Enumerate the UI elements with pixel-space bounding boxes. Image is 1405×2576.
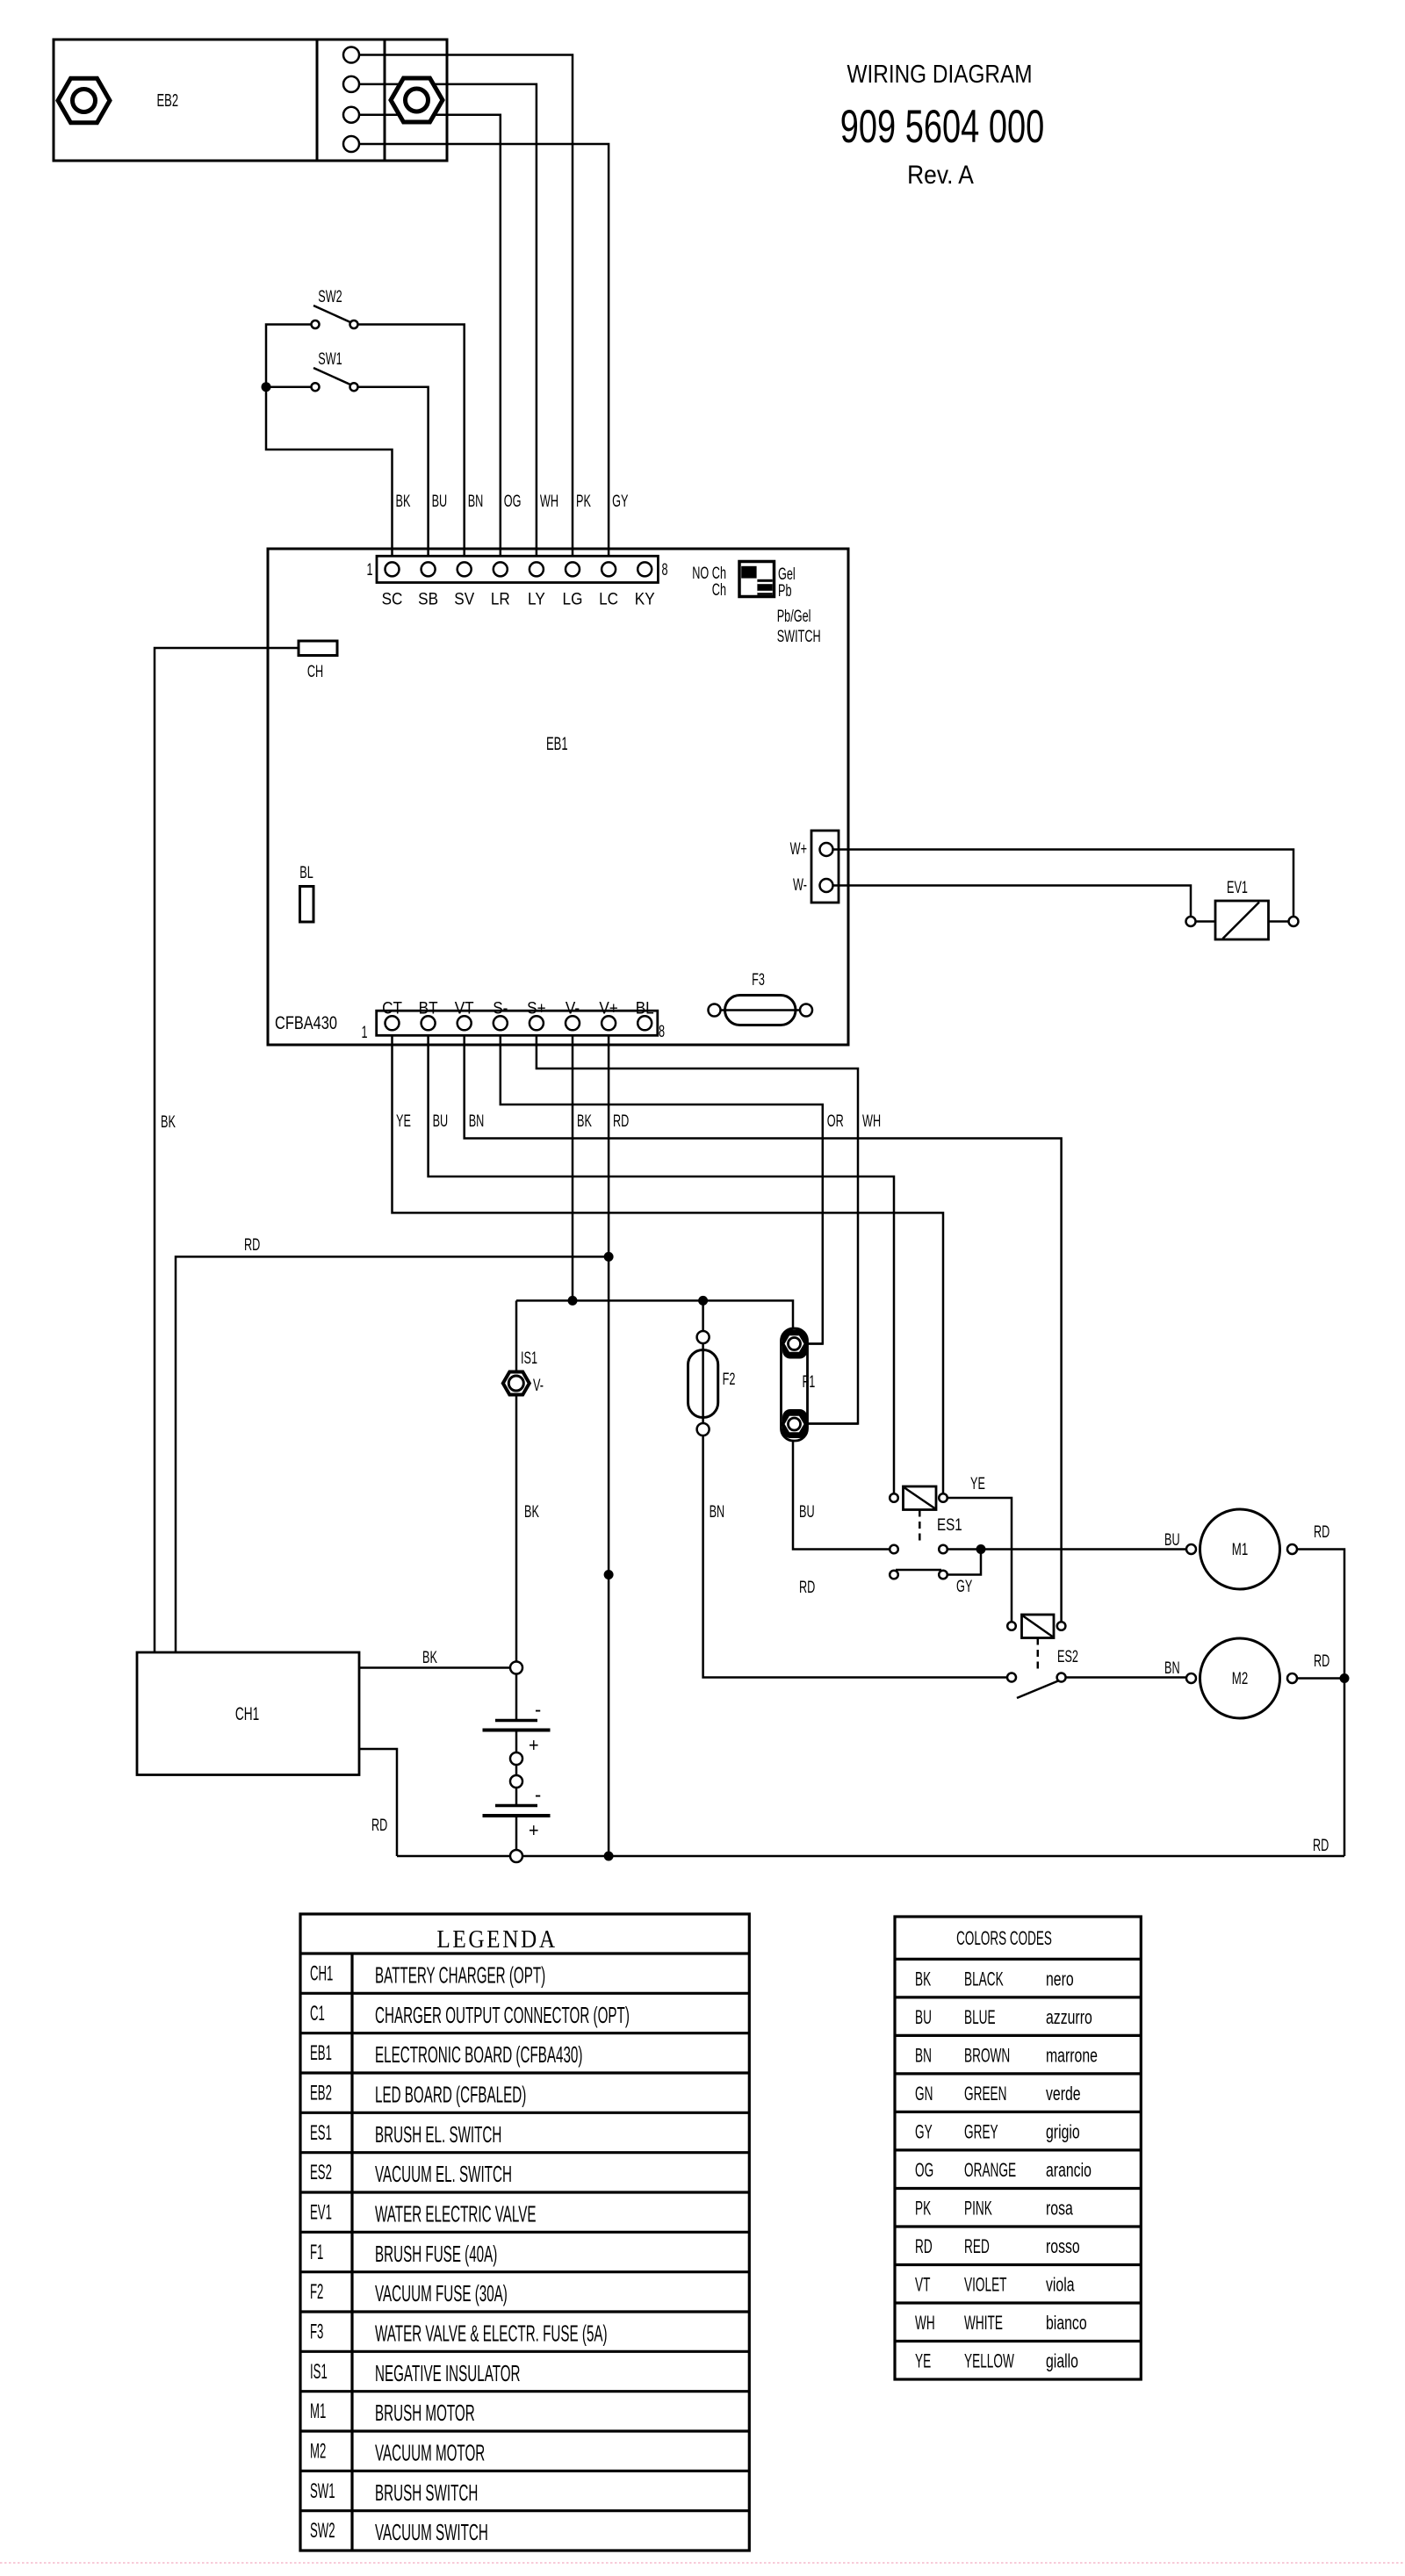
svg-text:WATER VALVE & ELECTR. FUSE (5A: WATER VALVE & ELECTR. FUSE (5A): [375, 2321, 608, 2346]
wire V- down (BK): [572, 1030, 574, 1300]
svg-text:EV1: EV1: [1227, 878, 1248, 896]
wire M2 to RD bus: [1297, 1677, 1344, 1680]
node BK junction V-: [568, 1296, 578, 1306]
svg-text:F2: F2: [723, 1370, 736, 1388]
svg-text:BK: BK: [915, 1968, 931, 1990]
wire BT down (BU): [429, 1030, 894, 1493]
EB1 top connector: [377, 556, 658, 582]
node RD junction: [604, 1252, 614, 1262]
LED board EB2: [54, 40, 447, 161]
svg-text:LG: LG: [563, 588, 583, 608]
wire CT down (YE): [393, 1030, 944, 1493]
svg-text:VIOLET: VIOLET: [964, 2273, 1006, 2295]
svg-text:BRUSH EL. SWITCH: BRUSH EL. SWITCH: [375, 2122, 501, 2148]
legend row F3: [310, 2320, 608, 2346]
legend row EV1: [310, 2200, 537, 2227]
svg-text:CH: CH: [307, 662, 323, 680]
brush motor M1: [1186, 1509, 1297, 1589]
svg-text:OG: OG: [504, 492, 522, 510]
svg-text:Ch: Ch: [712, 580, 726, 599]
svg-text:NEGATIVE INSULATOR: NEGATIVE INSULATOR: [375, 2361, 521, 2386]
switch contacts ES2: [1007, 1673, 1066, 1699]
svg-text:LEGENDA: LEGENDA: [436, 1925, 557, 1953]
svg-text:rosa: rosa: [1046, 2198, 1073, 2220]
svg-text:S-: S-: [493, 997, 508, 1017]
legend row F1: [310, 2241, 497, 2267]
wire VT down (BN): [465, 1030, 1062, 1622]
svg-text:RD: RD: [371, 1816, 387, 1834]
svg-text:ES1: ES1: [310, 2121, 332, 2145]
wire V- to battery (BK): [515, 1300, 518, 1720]
battery B1: [483, 1697, 551, 1756]
svg-text:rosso: rosso: [1046, 2237, 1080, 2258]
svg-text:BK: BK: [524, 1502, 539, 1521]
svg-text:RD: RD: [1314, 1651, 1329, 1670]
relay coil ES2: [1007, 1615, 1078, 1673]
svg-text:BN: BN: [469, 1112, 485, 1130]
svg-text:S+: S+: [527, 997, 545, 1017]
svg-text:EB1: EB1: [310, 2041, 332, 2065]
legend row SW2: [310, 2519, 488, 2545]
svg-text:Pb: Pb: [778, 581, 791, 600]
svg-text:F1: F1: [803, 1372, 816, 1391]
relay coil ES1: [890, 1486, 962, 1545]
colors row RD: [915, 2235, 1080, 2258]
svg-text:W-: W-: [793, 875, 807, 894]
svg-text:viola: viola: [1046, 2275, 1075, 2296]
legend row ES1: [310, 2121, 501, 2148]
svg-text:RED: RED: [964, 2235, 990, 2257]
EB1 bottom connector: [377, 1011, 658, 1035]
svg-text:GY: GY: [612, 492, 628, 510]
svg-text:ES2: ES2: [1057, 1647, 1078, 1666]
Pb/Gel DIP switch: [739, 562, 775, 597]
svg-text:EB2: EB2: [310, 2081, 332, 2105]
svg-text:BU: BU: [915, 2005, 932, 2027]
battery charger CH1: [137, 1652, 359, 1775]
fuse F2: [688, 1300, 736, 1436]
svg-text:BRUSH SWITCH: BRUSH SWITCH: [375, 2480, 478, 2506]
svg-text:1: 1: [366, 560, 372, 579]
svg-text:BU: BU: [433, 1112, 449, 1130]
svg-text:KY: KY: [635, 588, 655, 608]
wire EB2 pin1 to LG: [358, 55, 573, 564]
electronic board EB1: [268, 549, 848, 1045]
node BU junction: [976, 1544, 986, 1554]
svg-text:YE: YE: [396, 1112, 411, 1130]
battery link terminals: [510, 1752, 522, 1788]
svg-text:RD: RD: [613, 1112, 629, 1130]
svg-text:OG: OG: [915, 2158, 933, 2180]
svg-text:ES2: ES2: [310, 2161, 332, 2184]
svg-text:arancio: arancio: [1046, 2161, 1092, 2182]
wire W- to EV1 left: [833, 886, 1192, 917]
svg-text:BRUSH MOTOR: BRUSH MOTOR: [375, 2400, 475, 2426]
svg-text:WHITE: WHITE: [964, 2312, 1003, 2334]
svg-text:COLORS CODES: COLORS CODES: [956, 1926, 1052, 1948]
wire CH1 to RD bus: [359, 1749, 397, 1856]
svg-text:909 5604 000: 909 5604 000: [840, 100, 1044, 153]
legend row C1: [310, 2002, 630, 2028]
svg-text:WH: WH: [915, 2312, 935, 2334]
svg-text:CHARGER OUTPUT CONNECTOR (OPT): CHARGER OUTPUT CONNECTOR (OPT): [375, 2003, 630, 2028]
colors row GY: [915, 2120, 1080, 2143]
svg-text:LY: LY: [528, 588, 545, 608]
svg-text:W+: W+: [790, 839, 807, 858]
colors row BU: [915, 2005, 1092, 2028]
wire SW2 right to SV: [358, 325, 465, 564]
legend row ES2: [310, 2161, 512, 2187]
svg-text:V+: V+: [599, 997, 617, 1017]
svg-text:M1: M1: [1232, 1539, 1248, 1558]
svg-text:SW1: SW1: [310, 2479, 335, 2503]
svg-text:WH: WH: [540, 492, 558, 510]
wire M1 to RD bus: [1297, 1550, 1344, 1857]
battery bottom terminal: [510, 1850, 522, 1862]
switch SW2: [312, 287, 358, 328]
svg-text:LC: LC: [599, 588, 618, 608]
svg-text:+: +: [529, 1820, 539, 1841]
svg-text:PK: PK: [576, 492, 591, 510]
svg-text:F1: F1: [310, 2241, 323, 2264]
battery top terminal: [510, 1662, 522, 1674]
svg-text:ES1: ES1: [937, 1515, 962, 1534]
wire EB2 pin2 to LY: [358, 84, 537, 563]
svg-text:bianco: bianco: [1046, 2313, 1087, 2335]
colors row YE: [915, 2349, 1078, 2372]
svg-text:LR: LR: [491, 588, 510, 608]
svg-text:BATTERY CHARGER (OPT): BATTERY CHARGER (OPT): [375, 1962, 545, 1988]
colors row GN: [915, 2082, 1081, 2105]
wire ES1 to M1 (BU): [947, 1548, 1186, 1551]
wire EB2 pin3 to LR: [358, 115, 501, 563]
wire SW1 right to SB: [358, 387, 429, 563]
connector W+/W- on EB1: [811, 831, 839, 903]
svg-text:grigio: grigio: [1046, 2122, 1080, 2143]
svg-text:BLACK: BLACK: [964, 1968, 1004, 1990]
svg-text:RD: RD: [915, 2235, 933, 2257]
svg-text:CH1: CH1: [235, 1703, 259, 1724]
wire S- down (OR): [501, 1030, 823, 1344]
legend row EB1: [310, 2041, 582, 2068]
svg-text:BU: BU: [799, 1502, 815, 1521]
svg-text:BU: BU: [1164, 1530, 1180, 1549]
colors row VT: [915, 2273, 1075, 2296]
svg-text:CT: CT: [382, 997, 402, 1017]
node RD junction (M2): [1340, 1673, 1350, 1683]
legend row F2: [310, 2280, 508, 2306]
svg-text:VT: VT: [455, 997, 474, 1017]
wire SW1 left stub: [266, 385, 312, 388]
svg-text:BK: BK: [577, 1112, 592, 1130]
wire CH1 to battery (BK): [359, 1666, 510, 1669]
svg-text:WIRING DIAGRAM: WIRING DIAGRAM: [847, 60, 1032, 88]
colors row BN: [915, 2044, 1098, 2067]
svg-text:BN: BN: [1164, 1659, 1180, 1677]
svg-text:PINK: PINK: [964, 2197, 992, 2219]
legend table frame: [300, 1914, 749, 2551]
svg-text:CFBA430: CFBA430: [275, 1012, 337, 1033]
svg-text:M1: M1: [310, 2400, 326, 2423]
legend row IS1: [310, 2360, 521, 2386]
switch SW1: [312, 349, 358, 391]
svg-text:GREEN: GREEN: [964, 2082, 1006, 2104]
wire EB2 pin4 to LC: [358, 144, 609, 563]
svg-text:BU: BU: [432, 492, 448, 510]
svg-text:GREY: GREY: [964, 2120, 998, 2142]
svg-text:SB: SB: [418, 588, 438, 608]
svg-text:RD: RD: [244, 1235, 260, 1254]
vacuum motor M2: [1186, 1638, 1297, 1718]
svg-text:C1: C1: [310, 2002, 325, 2026]
colors row PK: [915, 2197, 1073, 2220]
svg-text:OR: OR: [827, 1112, 844, 1130]
svg-text:BK: BK: [161, 1112, 176, 1131]
svg-text:VACUUM FUSE (30A): VACUUM FUSE (30A): [375, 2281, 508, 2306]
connector BL on EB1: [299, 863, 313, 922]
switch contacts ES1: [890, 1545, 981, 1579]
fuse F3: [709, 970, 813, 1025]
svg-text:WH: WH: [862, 1112, 881, 1130]
legend row M1: [310, 2400, 475, 2426]
svg-text:RD: RD: [1314, 1522, 1329, 1541]
svg-text:WATER ELECTRIC VALVE: WATER ELECTRIC VALVE: [375, 2201, 537, 2227]
wire W+ to EV1 right: [833, 850, 1294, 917]
svg-text:-: -: [535, 1782, 541, 1806]
svg-text:marrone: marrone: [1046, 2046, 1098, 2067]
svg-text:IS1: IS1: [521, 1349, 537, 1367]
EB2 right hex bolt: [391, 78, 443, 122]
svg-text:BK: BK: [396, 492, 411, 510]
svg-text:EV1: EV1: [310, 2200, 332, 2224]
svg-text:LED BOARD (CFBALED): LED BOARD (CFBALED): [375, 2082, 526, 2107]
svg-text:SV: SV: [454, 588, 475, 608]
svg-text:Rev. A: Rev. A: [907, 159, 974, 189]
svg-text:YE: YE: [970, 1474, 985, 1493]
svg-text:V-: V-: [566, 997, 580, 1017]
svg-text:SWITCH: SWITCH: [777, 627, 821, 645]
colors row OG: [915, 2158, 1092, 2181]
svg-text:8: 8: [659, 1022, 665, 1040]
wire battery link: [515, 1731, 518, 1753]
svg-text:ELECTRONIC BOARD (CFBA430): ELECTRONIC BOARD (CFBA430): [375, 2042, 582, 2068]
legend row M2: [310, 2439, 485, 2465]
svg-text:RD: RD: [799, 1578, 815, 1596]
svg-text:BLUE: BLUE: [964, 2005, 996, 2027]
svg-text:BROWN: BROWN: [964, 2044, 1010, 2066]
wire S+ down (WH): [537, 1030, 858, 1424]
wire BK bus horizontal: [516, 1300, 793, 1328]
svg-text:BN: BN: [710, 1502, 725, 1521]
node RD dot (mid): [604, 1570, 614, 1579]
svg-text:YELLOW: YELLOW: [964, 2349, 1014, 2371]
EB2 connector pins: [343, 47, 359, 153]
svg-text:F3: F3: [752, 970, 765, 989]
svg-text:BT: BT: [419, 997, 438, 1017]
svg-text:SC: SC: [382, 588, 403, 608]
legend row EB2: [310, 2081, 526, 2107]
wire V+ down (RD): [608, 1030, 610, 1856]
svg-text:VACUUM SWITCH: VACUUM SWITCH: [375, 2520, 488, 2545]
brush fuse F1: [782, 1328, 859, 1441]
wire to battery B2: [515, 1788, 518, 1806]
svg-text:GN: GN: [915, 2082, 933, 2104]
svg-text:M2: M2: [310, 2439, 326, 2463]
colors row WH: [915, 2312, 1087, 2335]
svg-text:1: 1: [361, 1023, 367, 1041]
svg-text:CH1: CH1: [310, 1961, 333, 1985]
svg-text:ORANGE: ORANGE: [964, 2158, 1016, 2180]
svg-text:VT: VT: [915, 2273, 930, 2295]
wire B2 to bus: [515, 1816, 518, 1850]
node RD bus junction: [604, 1852, 614, 1861]
wire SW2 left to common: [266, 325, 393, 564]
svg-text:azzurro: azzurro: [1046, 2008, 1092, 2029]
svg-text:VACUUM EL. SWITCH: VACUUM EL. SWITCH: [375, 2162, 512, 2187]
svg-text:SW2: SW2: [318, 287, 342, 306]
wire F1 to ES1 contact (BU): [793, 1441, 890, 1550]
svg-text:+: +: [529, 1735, 539, 1756]
EB2 left hex bolt: [58, 78, 110, 123]
wire RD horizontal to CH1: [176, 1256, 609, 1652]
node SW common junction: [262, 382, 271, 392]
svg-text:BL: BL: [636, 997, 654, 1017]
wire F2 to ES2 contact (BN): [703, 1436, 1007, 1678]
svg-text:EB2: EB2: [157, 90, 179, 111]
wire ES2 to M2 (BN): [1066, 1676, 1186, 1679]
svg-text:M2: M2: [1232, 1668, 1248, 1687]
svg-text:-: -: [535, 1697, 541, 1721]
battery B2: [483, 1782, 551, 1841]
svg-text:IS1: IS1: [310, 2360, 328, 2384]
svg-text:8: 8: [661, 560, 667, 579]
RD bottom bus: [397, 1855, 1344, 1858]
colors row BK: [915, 1968, 1074, 1990]
colors codes table frame: [895, 1917, 1141, 2379]
wire ES1 coil to ES2 coil (YE): [947, 1498, 1012, 1622]
svg-text:F3: F3: [310, 2320, 323, 2343]
node BK junction F2: [698, 1296, 708, 1306]
svg-text:GY: GY: [956, 1577, 972, 1595]
legend row SW1: [310, 2479, 478, 2506]
svg-text:GY: GY: [915, 2120, 933, 2142]
wire CH to CH1 (BK): [155, 648, 299, 1652]
connector CH on EB1: [299, 641, 337, 681]
negative insulator IS1: [503, 1349, 544, 1394]
svg-text:verde: verde: [1046, 2084, 1081, 2105]
legend row CH1: [310, 1961, 545, 1988]
svg-text:BN: BN: [468, 492, 484, 510]
svg-text:Pb/Gel: Pb/Gel: [777, 607, 811, 625]
svg-text:giallo: giallo: [1046, 2351, 1078, 2372]
svg-text:BK: BK: [422, 1648, 437, 1666]
svg-text:RD: RD: [1313, 1836, 1329, 1854]
svg-text:PK: PK: [915, 2197, 931, 2219]
svg-text:SW2: SW2: [310, 2519, 335, 2543]
svg-text:EB1: EB1: [546, 733, 568, 754]
svg-text:BN: BN: [915, 2044, 932, 2066]
water electric valve EV1: [1186, 878, 1299, 939]
svg-text:BRUSH FUSE (40A): BRUSH FUSE (40A): [375, 2241, 497, 2267]
svg-text:BL: BL: [299, 863, 313, 881]
svg-text:V-: V-: [533, 1376, 544, 1394]
svg-text:SW1: SW1: [318, 349, 342, 368]
page footer dotted line: [0, 2562, 1405, 2564]
svg-text:nero: nero: [1046, 1969, 1074, 1990]
svg-text:F2: F2: [310, 2280, 323, 2304]
svg-text:VACUUM MOTOR: VACUUM MOTOR: [375, 2440, 485, 2465]
svg-text:YE: YE: [915, 2349, 931, 2371]
